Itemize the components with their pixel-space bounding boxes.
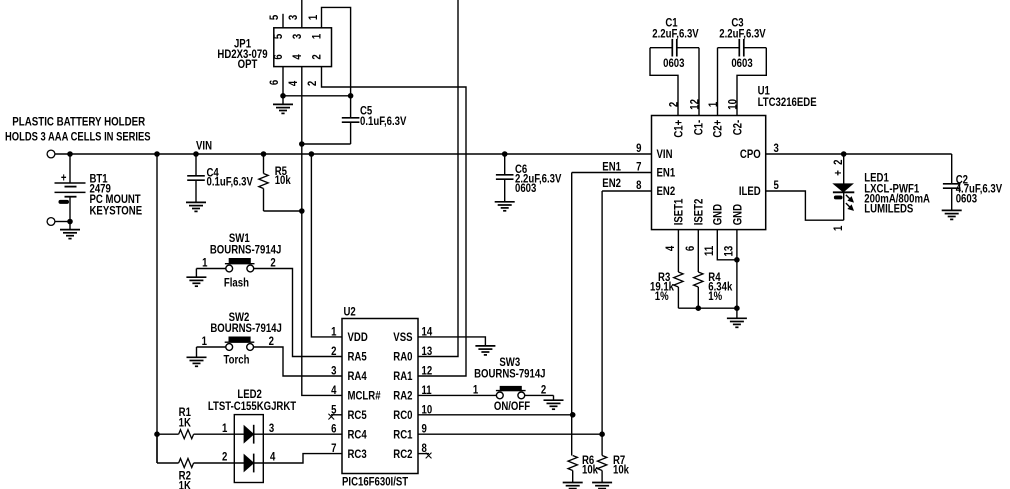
svg-text:10k: 10k	[582, 464, 599, 477]
svg-text:1: 1	[202, 335, 207, 348]
svg-text:1%: 1%	[708, 290, 722, 303]
LED2 diode B	[244, 455, 253, 472]
LED2 box	[234, 415, 263, 483]
svg-text:GND: GND	[711, 204, 724, 225]
resistor R3	[674, 272, 683, 287]
wire EN1 vertical	[571, 173, 573, 456]
resistor R4	[694, 272, 703, 287]
svg-text:BOURNS-7914J: BOURNS-7914J	[474, 368, 545, 381]
JP1 pin 1 wire	[322, 7, 351, 117]
wire RA2 to SW3	[418, 394, 496, 396]
U1 pin11 lead	[717, 230, 737, 260]
ground JP1 pin6	[282, 96, 284, 105]
ground BT1	[60, 229, 80, 231]
svg-text:6: 6	[272, 54, 285, 59]
svg-text:10k: 10k	[275, 174, 292, 187]
wire RC1 to EN2 net	[418, 433, 602, 435]
svg-text:VDD: VDD	[348, 331, 368, 344]
junction C5/MCLR	[300, 142, 305, 147]
svg-text:0603: 0603	[731, 57, 752, 70]
svg-text:4: 4	[287, 81, 300, 86]
svg-text:5: 5	[268, 15, 281, 20]
junction pin6 gnd	[281, 94, 286, 99]
svg-text:BOURNS-7914J: BOURNS-7914J	[210, 243, 281, 256]
junction C6	[502, 152, 507, 157]
svg-text:CPO: CPO	[740, 148, 761, 161]
svg-text:1: 1	[473, 383, 478, 396]
svg-text:9: 9	[636, 142, 641, 155]
wire JP1 gnd net	[283, 95, 351, 97]
wire EN1	[572, 172, 652, 174]
svg-text:3: 3	[269, 422, 274, 435]
ground U1 gnd	[736, 308, 738, 318]
svg-text:2: 2	[222, 451, 227, 464]
ground C4	[186, 201, 206, 203]
svg-text:1: 1	[202, 257, 207, 270]
ground SW2	[196, 347, 198, 357]
svg-text:13: 13	[723, 246, 736, 257]
svg-text:KEYSTONE: KEYSTONE	[90, 205, 143, 218]
svg-text:10: 10	[727, 99, 740, 110]
svg-text:1: 1	[832, 226, 845, 231]
svg-text:2: 2	[832, 160, 845, 165]
LED2 diode A	[244, 426, 253, 443]
svg-text:2.2uF,6.3V: 2.2uF,6.3V	[652, 27, 699, 40]
svg-text:ON/OFF: ON/OFF	[494, 400, 531, 413]
svg-text:0603: 0603	[956, 192, 977, 205]
svg-text:RA4: RA4	[348, 370, 367, 383]
capacitor C2	[951, 154, 953, 184]
svg-text:C1+: C1+	[672, 120, 685, 138]
junction VDD drop	[309, 152, 314, 157]
svg-text:1: 1	[707, 102, 720, 107]
capacitor C4	[195, 154, 197, 176]
svg-text:MCLR#: MCLR#	[348, 390, 381, 403]
junction RC1/EN2	[600, 432, 605, 437]
svg-text:2: 2	[306, 81, 319, 86]
svg-text:VIN: VIN	[196, 139, 212, 152]
svg-text:0.1uF,6.3V: 0.1uF,6.3V	[207, 175, 254, 188]
svg-text:U2: U2	[344, 306, 356, 319]
svg-text:RC5: RC5	[348, 409, 367, 422]
svg-text:LTC3216EDE: LTC3216EDE	[758, 96, 817, 109]
wire VIN to U2 VDD	[311, 154, 342, 337]
terminal battery -	[47, 218, 55, 226]
svg-text:RC1: RC1	[393, 428, 412, 441]
U1 pin6 lead	[697, 230, 699, 272]
svg-text:2: 2	[311, 54, 324, 59]
wire EN2 vertical	[601, 191, 603, 456]
ground C2	[942, 209, 962, 211]
wire C5 to MCLR net	[302, 143, 351, 145]
junction gnd11/13	[735, 258, 740, 263]
wire R1 to LED2	[194, 433, 245, 435]
junction R5/MCLR	[300, 209, 305, 214]
svg-text:C2-: C2-	[731, 119, 744, 135]
junction battery-	[68, 219, 73, 224]
svg-text:EN1: EN1	[602, 161, 621, 174]
svg-text:2: 2	[541, 383, 546, 396]
svg-text:RA5: RA5	[348, 351, 367, 364]
wire RC0 to EN1 net	[418, 414, 573, 416]
svg-text:RA0: RA0	[393, 351, 412, 364]
JP1 pin 4 wire (MCLR net) down to U2 pin4	[302, 67, 342, 396]
wire battery bottom	[55, 221, 70, 223]
ground R6	[563, 482, 583, 484]
svg-text:1%: 1%	[655, 290, 669, 303]
svg-text:PIC16F630I/ST: PIC16F630I/ST	[342, 475, 408, 488]
svg-text:RA1: RA1	[393, 370, 412, 383]
wire CPO	[766, 153, 952, 155]
svg-text:2.2uF,6.3V: 2.2uF,6.3V	[719, 27, 766, 40]
svg-text:3: 3	[287, 15, 300, 20]
wire R3R4 gnd	[678, 307, 737, 309]
SW2 pin1 wire	[197, 346, 226, 348]
svg-text:EN1: EN1	[657, 167, 676, 180]
wire VIN down-left branch	[156, 154, 158, 463]
capacitor C5	[342, 117, 360, 119]
svg-text:RA2: RA2	[393, 390, 412, 403]
svg-text:0603: 0603	[515, 182, 536, 195]
junction RC0/EN1	[570, 413, 575, 418]
svg-text:1K: 1K	[179, 479, 191, 489]
svg-text:3: 3	[291, 34, 304, 39]
JP1 pin 3 wire to top edge	[301, 0, 303, 28]
svg-text:LUMILEDS: LUMILEDS	[864, 202, 913, 215]
svg-text:RC4: RC4	[348, 428, 367, 441]
svg-text:4: 4	[291, 54, 304, 59]
svg-text:4: 4	[331, 384, 336, 397]
svg-text:1: 1	[311, 34, 324, 39]
SW3 pin2 wire	[525, 394, 554, 396]
junction LED1	[841, 152, 846, 157]
svg-text:0.1uF,6.3V: 0.1uF,6.3V	[360, 115, 407, 128]
resistor R7	[597, 456, 606, 471]
svg-text:RC3: RC3	[348, 448, 367, 461]
svg-text:GND: GND	[731, 204, 744, 225]
IC U2 PIC16F630 box	[342, 319, 418, 474]
svg-text:OPT: OPT	[238, 58, 258, 71]
U2 RC2 stub no-connect	[418, 453, 429, 455]
junction C4	[194, 152, 199, 157]
U1 pin4 lead	[677, 230, 679, 272]
junction C5 top	[348, 94, 353, 99]
wire LED2 pin3 to RC4	[254, 433, 342, 435]
svg-text:Torch: Torch	[224, 354, 250, 367]
capacitor C1	[650, 47, 672, 49]
svg-text:12: 12	[422, 365, 433, 378]
junction R4 gnd	[696, 306, 701, 311]
svg-text:BOURNS-7914J: BOURNS-7914J	[210, 322, 281, 335]
node VIN rail	[55, 153, 652, 155]
wire ILED to LED1	[766, 191, 844, 220]
ground VSS	[475, 345, 495, 347]
junction x157	[155, 152, 160, 157]
svg-text:Flash: Flash	[224, 276, 249, 289]
resistor R2	[179, 459, 194, 468]
svg-text:RC2: RC2	[393, 448, 412, 461]
svg-text:6: 6	[268, 80, 281, 85]
svg-text:EN2: EN2	[657, 185, 676, 198]
terminal battery +	[47, 150, 55, 158]
JP1 pin 6 stub	[282, 67, 284, 96]
junction battery+	[68, 152, 73, 157]
svg-text:4: 4	[664, 246, 677, 251]
svg-text:1: 1	[222, 422, 227, 435]
capacitor C3	[718, 47, 740, 49]
LED1	[843, 154, 845, 184]
svg-text:1: 1	[307, 15, 320, 20]
U2 RC5 stub no-connect	[331, 414, 342, 416]
resistor R5	[263, 154, 265, 174]
svg-text:EN2: EN2	[602, 177, 621, 190]
junction R1 branch	[155, 432, 160, 437]
ground C6	[495, 201, 515, 203]
ground SW3	[553, 395, 555, 400]
wire LED2 pin4 to RC3	[254, 454, 342, 463]
svg-text:VSS: VSS	[393, 331, 412, 344]
LED1 arrows	[846, 195, 850, 207]
ground SW1	[195, 269, 197, 278]
svg-text:HOLDS 3 AAA CELLS IN SERIES: HOLDS 3 AAA CELLS IN SERIES	[5, 130, 151, 143]
ground R7	[592, 482, 612, 484]
SW1 pin1 wire	[196, 268, 225, 270]
svg-text:RC0: RC0	[393, 409, 412, 422]
capacitor C6	[504, 154, 506, 175]
JP1 pin 2 wire to RA1	[322, 67, 467, 376]
svg-text:PLASTIC BATTERY HOLDER: PLASTIC BATTERY HOLDER	[12, 116, 145, 129]
wire EN2	[602, 190, 651, 192]
JP1 pin 5 stub	[282, 14, 284, 28]
wire R2 to LED2	[194, 462, 245, 464]
IC U1 LTC3216EDE box	[652, 116, 766, 230]
svg-text:11: 11	[703, 246, 716, 256]
wire x157 to R2	[156, 434, 158, 463]
resistor R1	[157, 433, 179, 435]
junction R5	[261, 152, 266, 157]
svg-text:ILED: ILED	[739, 185, 761, 198]
svg-text:VIN: VIN	[657, 148, 673, 161]
svg-text:+: +	[832, 170, 845, 176]
wire RA0 net to top edge	[418, 0, 458, 357]
svg-text:C1-: C1-	[692, 119, 705, 135]
junction gnd13	[735, 306, 740, 311]
wire R5 to MCLR net	[264, 210, 302, 212]
resistor R6	[568, 456, 577, 471]
svg-text:10k: 10k	[613, 464, 630, 477]
svg-text:5: 5	[272, 34, 285, 39]
svg-text:1K: 1K	[179, 417, 191, 430]
battery BT1	[69, 154, 71, 183]
U1 pin13 lead	[736, 230, 738, 309]
svg-text:1: 1	[331, 325, 336, 338]
svg-text:2: 2	[668, 102, 681, 107]
svg-text:C2+: C2+	[711, 120, 724, 138]
svg-text:6: 6	[684, 246, 697, 251]
svg-text:12: 12	[689, 99, 702, 110]
connector JP1 box	[274, 28, 332, 67]
svg-text:4: 4	[270, 451, 275, 464]
wire VSS to ground	[418, 337, 485, 346]
svg-text:ISET2: ISET2	[692, 199, 705, 226]
svg-text:13: 13	[422, 345, 433, 358]
svg-text:LTST-C155KGJRKT: LTST-C155KGJRKT	[208, 400, 297, 413]
svg-text:ISET1: ISET1	[672, 199, 685, 226]
svg-text:0603: 0603	[663, 57, 684, 70]
